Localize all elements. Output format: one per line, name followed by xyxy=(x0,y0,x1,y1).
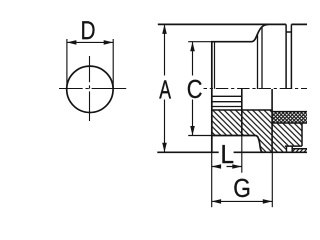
svg-text:C: C xyxy=(187,75,203,104)
svg-text:G: G xyxy=(233,174,251,203)
svg-text:D: D xyxy=(81,16,96,45)
svg-text:L: L xyxy=(220,140,233,169)
svg-text:A: A xyxy=(159,75,171,104)
